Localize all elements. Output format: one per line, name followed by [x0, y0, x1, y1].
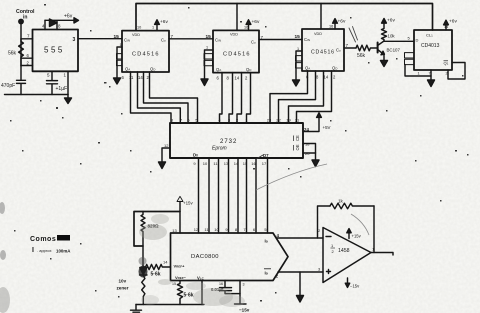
wire ground rail 555 [5, 94, 69, 96]
wire U3 jam pin stub [205, 50, 214, 79]
wire DAC VLC pin down [201, 281, 203, 305]
pin digits EPROM top [171, 118, 300, 123]
wire scribble mark [349, 27, 358, 43]
svg-text:CD4516: CD4516 [223, 52, 251, 58]
wire U5 +6v stub [445, 24, 447, 30]
wire U2 QC to EPROM A [144, 72, 189, 123]
smudge corner [0, 287, 10, 313]
svg-text:BC107: BC107 [387, 48, 401, 53]
resistor R2 56k [356, 45, 377, 51]
op 555 U1 box [33, 30, 79, 72]
svg-text:1k: 1k [338, 199, 344, 204]
svg-text:VREF+: VREF+ [174, 264, 186, 269]
wire U2 QD to EPROM A [150, 72, 198, 123]
svg-text:D: D [416, 38, 419, 43]
wire U3 QB to EPROM [229, 73, 233, 123]
wire U2 QA to EPROM A [131, 72, 172, 123]
wire EPROM CE pin18 [303, 144, 316, 161]
node +6v arrow U5 [444, 20, 449, 25]
svg-text:zener: zener [117, 286, 129, 291]
svg-text:10: 10 [203, 161, 208, 166]
svg-text:CE: CE [295, 135, 300, 141]
op U2 jam stub box a [117, 54, 123, 59]
wire faint sweep curve [256, 164, 327, 190]
wire U2 Co to U3 [169, 38, 213, 40]
svg-text:2: 2 [446, 72, 448, 76]
wire D3 [228, 158, 230, 233]
svg-text:13: 13 [224, 161, 229, 166]
svg-text:21: 21 [295, 118, 300, 123]
svg-text:OE: OE [295, 144, 300, 150]
svg-text:Io: Io [265, 239, 268, 244]
wire U3 QA to EPROM [220, 73, 223, 123]
op U2 jam stub box b [117, 60, 123, 65]
svg-text:11: 11 [129, 75, 134, 80]
svg-text:3: 3 [73, 37, 76, 43]
wire DAC Io out [277, 237, 324, 239]
wire zener to rail squiggle [142, 276, 145, 305]
op CD4516 U3 box [213, 30, 259, 72]
svg-text:Io: Io [265, 271, 268, 276]
wire U4 QD to EPROM [297, 71, 332, 123]
svg-text:2732: 2732 [220, 139, 237, 145]
wire U4 Co to R2 [344, 47, 356, 49]
svg-text:5·6k: 5·6k [151, 272, 161, 278]
svg-text:D0: D0 [193, 153, 198, 158]
ground U2 jam [114, 78, 121, 84]
wire 555 out to U2 [78, 38, 122, 40]
wire control input vertical [20, 23, 22, 80]
svg-text:15: 15 [172, 282, 176, 286]
ground U4 jam [293, 80, 300, 86]
op U4 jam stub box a [296, 56, 303, 61]
svg-text:1: 1 [297, 47, 299, 51]
svg-text:14: 14 [234, 161, 239, 166]
svg-text:15: 15 [114, 34, 120, 40]
svg-text:+5V: +5V [323, 125, 331, 130]
svg-text:+1µF: +1µF [56, 86, 68, 92]
svg-text:VDD: VDD [132, 33, 140, 37]
wire ground rail DAC [136, 304, 204, 306]
wire U2 +6v stub [156, 24, 158, 31]
svg-text:+6v: +6v [64, 14, 73, 20]
svg-text:12: 12 [194, 227, 199, 232]
op U5 set stub box b [405, 59, 415, 64]
svg-text:CIN: CIN [124, 38, 130, 43]
svg-text:+6v: +6v [449, 19, 457, 25]
svg-text:14: 14 [235, 76, 240, 81]
svg-text:1458: 1458 [338, 248, 350, 254]
svg-text:15: 15 [295, 34, 301, 40]
svg-text:CD4516: CD4516 [311, 50, 335, 56]
smudge bottom center [193, 288, 233, 306]
resistor R7 1k [330, 203, 374, 209]
svg-text:56k: 56k [8, 51, 17, 57]
ground U3 jam [201, 79, 208, 86]
svg-text:CIN: CIN [304, 37, 310, 42]
svg-text:+15v: +15v [183, 201, 193, 206]
svg-text:CD4013: CD4013 [421, 43, 440, 49]
svg-text:10: 10 [137, 26, 141, 30]
resistor R5 5.6k horizontal [143, 264, 170, 269]
wire U3 QC to EPROM [237, 73, 242, 123]
svg-text:16: 16 [219, 282, 223, 286]
wire EPROM OE pin20 [303, 152, 316, 154]
label CE OE [294, 135, 301, 151]
wire U3 Co to U4 [259, 39, 302, 41]
node +6v arrow U4 [333, 19, 338, 24]
wire 555 pin1 down [67, 71, 69, 94]
svg-text:22: 22 [276, 118, 281, 123]
op CD4516 U2 box [122, 31, 169, 72]
svg-text:15: 15 [206, 34, 212, 40]
resistor R6 5.6k vertical [177, 281, 182, 305]
pin digits EPROM bottom [193, 161, 267, 166]
ground EPROM pin12 [159, 162, 166, 169]
svg-text:Eprom: Eprom [212, 146, 227, 152]
wire DAC pin3 to -15v [235, 281, 247, 305]
wire D1 [208, 158, 210, 233]
wire Iobar ground drop [299, 272, 301, 296]
svg-text:in: in [23, 15, 27, 21]
svg-text:VDD: VDD [230, 33, 238, 37]
capacitor C1 470pF [17, 80, 26, 94]
svg-text:1: 1 [418, 72, 420, 76]
svg-text:. approx: . approx [37, 248, 51, 253]
svg-text:10v: 10v [119, 279, 127, 284]
svg-text:1: 1 [120, 43, 122, 47]
svg-text:Comos: Comos [30, 236, 56, 243]
wire Q1 emitter down [383, 55, 385, 61]
wire 555 pin4 up [44, 20, 46, 29]
wire pin6 stub [21, 57, 33, 59]
node junction arrow [50, 19, 58, 27]
wire U2 QB to EPROM A [138, 72, 181, 123]
svg-text:QD: QD [246, 67, 252, 72]
svg-text:VLC: VLC [197, 276, 205, 281]
svg-text:15: 15 [243, 161, 248, 166]
smudge 820 area [139, 224, 167, 240]
op-amp plus sign [327, 270, 331, 274]
capacitor C2 1uF [47, 71, 58, 94]
pin digits DAC top [172, 227, 267, 233]
svg-text:7: 7 [429, 72, 431, 76]
svg-text:13: 13 [172, 228, 177, 233]
svg-text:555: 555 [44, 46, 65, 55]
wire feedback tap [318, 206, 331, 238]
wire U3 QD to EPROM [247, 73, 251, 123]
svg-text:14: 14 [444, 25, 448, 29]
wire D6 [255, 158, 257, 233]
svg-text:16: 16 [251, 161, 256, 166]
wire pin2 stub [21, 65, 33, 67]
svg-text:16: 16 [329, 25, 333, 29]
wire -15v arrow opamp [347, 278, 349, 284]
wire U3 +6v stub [248, 24, 250, 30]
wire +6V top rail [136, 4, 433, 31]
resistor R1 56k [19, 39, 24, 66]
svg-text:10: 10 [214, 227, 219, 232]
op-amp U7 1458 triangle [323, 228, 371, 283]
svg-text:−15v: −15v [350, 284, 360, 289]
wire U4 QA to EPROM [270, 71, 308, 123]
ground U5 [428, 80, 435, 87]
op U5 set stub box a [405, 53, 415, 58]
wire D7 [267, 158, 269, 233]
ground EPROM CE OE [312, 160, 319, 167]
svg-text:QA: QA [216, 67, 221, 72]
node -15v arrowhead opamp [345, 283, 349, 287]
resistor R3 10k [382, 23, 387, 42]
capacitor C3 0.01uF [220, 281, 241, 294]
svg-text:1: 1 [206, 46, 208, 50]
wire rail drop to U3 [320, 4, 322, 30]
wire EPROM pin24 to +5V [303, 117, 319, 132]
svg-text:QA: QA [125, 67, 130, 72]
svg-text:100mA: 100mA [56, 249, 71, 254]
svg-text:VDD: VDD [314, 32, 322, 36]
svg-text:D7: D7 [263, 153, 269, 158]
node +15v open arrow [177, 196, 183, 201]
svg-text:20: 20 [305, 151, 310, 156]
svg-text:QD: QD [150, 67, 156, 72]
wire D7 annotation tick [257, 155, 263, 159]
node Q1 emitter arrowhead [381, 51, 384, 55]
svg-text:CIN: CIN [215, 38, 221, 43]
resistor R4 820 coil [141, 212, 145, 267]
smudge zener area [139, 266, 148, 278]
node +6v arrow 555 [74, 18, 79, 23]
wire D0 [198, 158, 200, 233]
transistor Q1 BC107 [377, 43, 379, 53]
svg-text:DAC0800: DAC0800 [191, 254, 219, 260]
svg-text:14: 14 [163, 260, 168, 265]
op U3 jam stub box a [204, 54, 213, 59]
wire op-amp output [371, 253, 393, 256]
diode D1 zener 10v [140, 268, 148, 276]
wire pin7 stub [21, 38, 33, 40]
node +6v arrow R3 [382, 19, 387, 24]
svg-text:23: 23 [267, 118, 272, 123]
svg-text:+6v: +6v [160, 19, 168, 25]
svg-text:+6v: +6v [387, 18, 395, 24]
svg-text:Q1: Q1 [444, 61, 449, 66]
node +15v arrowhead opamp [347, 229, 351, 233]
op CD4013 U5 box [414, 30, 452, 70]
svg-text:QD: QD [332, 66, 338, 71]
op CD4516 U4 box [302, 29, 344, 71]
svg-text:+15v: +15v [352, 234, 362, 239]
wire DAC pin13 +15v stub [179, 202, 181, 234]
wire U4 +6v stub [334, 23, 336, 29]
svg-text:+6v: +6v [252, 19, 260, 25]
svg-text:14: 14 [138, 75, 143, 80]
svg-text:CL1: CL1 [426, 33, 433, 38]
node +6v arrow U3 [246, 20, 251, 25]
wire U5 pin7 down [430, 70, 432, 80]
svg-text:56k: 56k [357, 53, 366, 59]
op-amp minus sign [326, 236, 331, 238]
svg-text:3: 3 [243, 283, 245, 287]
op U4 jam stub box b [296, 63, 303, 68]
wire faint curve near opamp [351, 214, 369, 235]
svg-text:Co: Co [161, 38, 166, 43]
wire DAC Iobar out [278, 271, 323, 273]
svg-text:16: 16 [244, 26, 248, 30]
wire U4 jam pin stub [296, 51, 302, 80]
wire D2 [218, 158, 220, 233]
svg-text:470pF: 470pF [1, 83, 15, 89]
ground Iobar [297, 296, 304, 303]
svg-text:QA: QA [305, 66, 310, 71]
wire U2 jam pin stub [117, 47, 122, 78]
wire U5 set pins to ground [405, 65, 431, 76]
svg-text:12: 12 [164, 143, 169, 148]
node +5V arrow [317, 113, 322, 118]
svg-text:Co: Co [336, 48, 341, 53]
wire Q1 collector to U5 [384, 40, 414, 42]
wire +15v arrow opamp [348, 232, 350, 239]
wire D4 [237, 158, 239, 233]
svg-text:10k: 10k [388, 34, 396, 39]
svg-text:Co: Co [251, 40, 256, 45]
wire D5 [246, 158, 248, 233]
ground 555 [65, 95, 72, 104]
svg-text:5·6k: 5·6k [184, 293, 194, 299]
svg-text:17: 17 [262, 161, 267, 166]
wire U5 Qbar to D loop [448, 63, 465, 80]
svg-text:24: 24 [304, 127, 309, 132]
wire R4 frame [134, 212, 180, 247]
wire rail drop to U2 [236, 4, 238, 31]
wire 555 pin8 up [45, 20, 74, 29]
svg-text:−15v: −15v [239, 308, 250, 313]
ground Q1 [381, 61, 388, 67]
svg-text:VREF−: VREF− [175, 275, 187, 280]
svg-text:14: 14 [324, 75, 329, 80]
node Control in [19, 19, 23, 23]
node +6v arrow U2 [155, 20, 160, 25]
svg-text:19: 19 [286, 118, 291, 123]
op U3 jam stub box b [204, 60, 213, 65]
svg-text:I: I [32, 247, 34, 254]
svg-text:1: 1 [152, 26, 154, 30]
ground rail left end [131, 305, 142, 313]
op DAC0800 U6 outline [171, 233, 289, 281]
wire U4 QC to EPROM [289, 71, 324, 123]
op EPROM 2732 box [170, 123, 303, 158]
svg-text:+6v: +6v [338, 19, 346, 25]
wire feedback right leg [373, 206, 375, 253]
wire U4 QB to EPROM [279, 71, 316, 123]
svg-text:18: 18 [305, 142, 310, 147]
label redaction blob [57, 235, 70, 241]
svg-text:CD4516: CD4516 [132, 52, 160, 58]
wire EPROM pin12 ground [162, 148, 170, 162]
